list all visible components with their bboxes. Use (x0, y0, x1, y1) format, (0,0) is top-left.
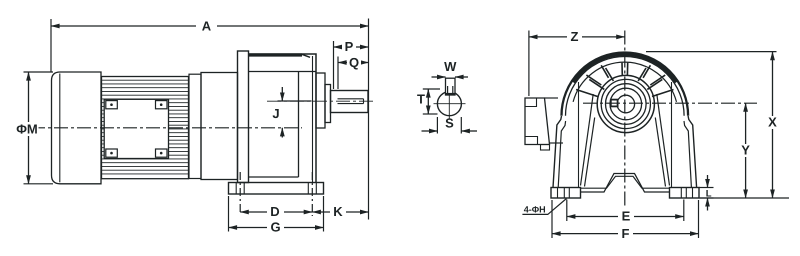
svg-text:E: E (622, 209, 631, 224)
dim Y line (745, 103, 747, 198)
right leg inner (684, 121, 691, 188)
gearbox top band (249, 53, 302, 56)
dim Z line (529, 36, 625, 38)
dim A line (51, 25, 369, 27)
dim E extension lines (566, 200, 568, 222)
dim P extension left (333, 41, 335, 89)
section crosshair (434, 103, 466, 105)
face panel line right (671, 82, 673, 188)
svg-text:T: T (417, 92, 425, 107)
terminal box tab (541, 145, 550, 151)
svg-text:A: A (202, 19, 212, 34)
rib 60 (638, 68, 646, 81)
rib 145 (589, 79, 604, 89)
shaft section key (446, 78, 456, 95)
bottom inner edge (581, 176, 670, 188)
shaft section circle (437, 92, 461, 116)
gearbox right wall second line (312, 56, 314, 183)
gearbox flange plate (238, 51, 249, 183)
bearing boss inner (325, 85, 331, 123)
face diagonal left 2 (585, 118, 595, 187)
dim W line left (432, 76, 446, 78)
face diagonal right 2 (655, 118, 665, 187)
dim G extension lines (228, 196, 230, 232)
screw pad BR (156, 149, 168, 157)
label G (267, 221, 284, 234)
motor end cap (52, 72, 102, 184)
label D (267, 205, 284, 218)
svg-text:ΦM: ΦM (16, 122, 38, 137)
svg-text:K: K (333, 204, 343, 219)
label Z (567, 31, 582, 44)
bearing boss outer (316, 73, 325, 128)
label E (618, 210, 634, 223)
dim S arrows (422, 130, 438, 132)
bolt centerline left foot (239, 172, 241, 214)
right foot hole lines (680, 188, 682, 199)
right leg outer (688, 116, 697, 188)
dim F line (552, 233, 699, 235)
svg-text:4-ΦH: 4-ΦH (524, 205, 546, 215)
gearbox parting line (249, 71, 317, 73)
base hole right (307, 183, 309, 195)
svg-text:S: S (445, 116, 454, 131)
right foot divider (692, 188, 694, 199)
label F (618, 228, 633, 240)
dim P line (334, 46, 369, 48)
front view dome top band (573, 55, 676, 83)
dim E line (567, 216, 684, 218)
front view dome outer arc (562, 53, 689, 116)
hub circle 3 (606, 84, 647, 125)
dim X top ref (646, 51, 777, 53)
dim T line (427, 89, 429, 114)
rib right horizontal (652, 90, 674, 97)
dim X line (772, 52, 774, 198)
front view rib ring arc (573, 62, 676, 102)
hub circle 5 (617, 95, 635, 113)
label K (330, 205, 346, 218)
svg-text:P: P (345, 39, 354, 54)
svg-text:W: W (444, 59, 457, 74)
gearbox body (249, 54, 317, 183)
left foot hole lines (563, 188, 565, 199)
screw pad TL (106, 101, 118, 109)
dim F extension lines (551, 200, 553, 238)
dim A extension right (shared A/P/Q/K) (368, 19, 370, 220)
left leg lines (237, 182, 239, 184)
key slot lines (447, 86, 449, 95)
svg-text:L: L (706, 189, 712, 200)
svg-text:Z: Z (571, 29, 579, 44)
motor body (102, 77, 189, 179)
dim J reference line (278, 100, 312, 102)
dim G line (229, 227, 324, 229)
dim S extension lines (436, 117, 438, 134)
face diagonal right 1 (660, 114, 670, 186)
screw pad TR (156, 101, 168, 109)
terminal plate (104, 99, 168, 158)
terminal box notch bottom (525, 137, 538, 145)
label Q (347, 57, 361, 69)
motor cap inner line (59, 74, 61, 183)
front view dome second arc (566, 56, 685, 115)
key slot bottom dark (446, 93, 455, 95)
label A (196, 20, 217, 33)
rib vertical (621, 63, 623, 76)
shaft keyway (338, 99, 364, 104)
dim A extension left (50, 19, 52, 72)
label P (342, 41, 356, 53)
terminal box front (525, 98, 550, 145)
terminal box notch top (525, 98, 537, 107)
dim X/Y bottom ref (700, 197, 789, 199)
box-dome connect top (545, 97, 559, 99)
label Y (739, 144, 753, 157)
hub circle 4 (610, 88, 642, 120)
right foot (670, 188, 700, 199)
rib left horizontal (576, 90, 598, 97)
face panel line left (578, 82, 580, 188)
hub circle 1 (597, 75, 654, 132)
gearbox inner wall (298, 72, 300, 178)
label X (766, 116, 780, 129)
rib 120 (606, 68, 614, 81)
output axis centerline (267, 100, 375, 102)
gearbox bottom line (249, 176, 299, 178)
svg-text:D: D (270, 204, 279, 219)
dim M extension lines (24, 71, 54, 73)
face diagonal left 1 (581, 114, 591, 186)
4-PhiH leader (522, 199, 566, 215)
left leg outer (553, 116, 562, 188)
hub keyway square (611, 100, 618, 107)
svg-text:X: X (768, 115, 777, 130)
motor fins (102, 80, 189, 174)
motor adapter (201, 73, 238, 180)
dim L arrows (707, 175, 709, 188)
left leg inner (558, 121, 565, 188)
rib 35 (647, 79, 662, 89)
dim T ticks (423, 88, 440, 90)
dim M line (28, 72, 30, 184)
output shaft (331, 91, 369, 113)
box-dome connect bottom (550, 142, 564, 144)
dim J line (281, 87, 283, 101)
dim D line (240, 211, 312, 213)
dim Q line (338, 62, 369, 64)
dim W line right (455, 76, 468, 78)
front horizontal centerline (583, 102, 757, 104)
motor centerline (31, 127, 302, 129)
screw pad BL (106, 149, 118, 157)
svg-text:G: G (270, 220, 280, 235)
bolt centerline right foot (311, 172, 313, 216)
dim Q extension left (337, 57, 339, 90)
svg-text:J: J (272, 106, 279, 121)
svg-text:F: F (622, 226, 630, 241)
motor ring (189, 74, 201, 178)
bottom edge with trapezoid (581, 174, 670, 193)
dim L ticks (699, 187, 714, 189)
base hole left (235, 183, 237, 195)
hub circle 2 (601, 79, 650, 128)
gearbox top chamfer (302, 54, 311, 57)
left foot (551, 188, 581, 199)
dim Z extension left (528, 31, 530, 97)
svg-text:Y: Y (741, 143, 750, 158)
hub side contour left (591, 94, 594, 114)
left foot divider (557, 188, 559, 199)
base plate (229, 183, 324, 195)
dim K line (312, 211, 368, 213)
front vertical centerline (624, 31, 626, 209)
hub side contour right (657, 94, 660, 114)
label PhiM (16, 122, 39, 136)
svg-text:Q: Q (349, 55, 359, 70)
